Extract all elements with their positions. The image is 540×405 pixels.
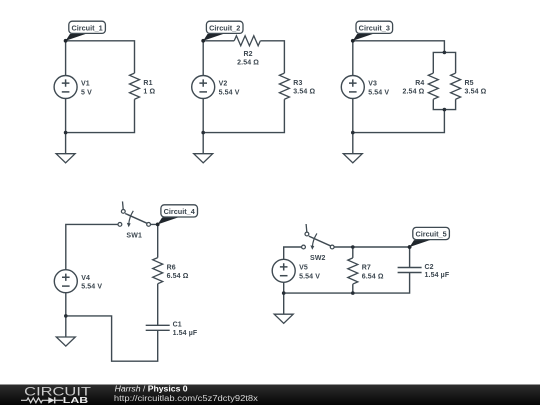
svg-text:1 Ω: 1 Ω: [143, 89, 155, 96]
capacitor C1: [146, 322, 198, 337]
svg-text:V2: V2: [219, 81, 228, 88]
wire c2 top left: [203, 41, 234, 76]
wire c4 top right: [151, 224, 158, 257]
svg-text:1.54 µF: 1.54 µF: [173, 330, 198, 337]
capacitor C2: [398, 264, 450, 279]
svg-text:6.54 Ω: 6.54 Ω: [167, 273, 189, 280]
wire c3 parallel bottom bar: [433, 99, 455, 109]
svg-text:R3: R3: [293, 80, 302, 87]
wire c2 top right: [260, 41, 284, 73]
ground: [56, 133, 75, 163]
resistor R2: [234, 36, 260, 67]
svg-text:V3: V3: [368, 81, 377, 88]
wire c5 top rail: [334, 247, 409, 268]
wire c3 top: [353, 41, 445, 76]
node label callout Circuit_3: [351, 21, 393, 42]
svg-text:R1: R1: [143, 80, 152, 87]
CircuitLab logo wire with resistor and diode: [21, 397, 63, 403]
wire c5 R7 upper stub: [352, 247, 354, 258]
svg-text:Circuit_1: Circuit_1: [71, 24, 102, 33]
svg-text:V4: V4: [81, 275, 90, 282]
switch SW1: [118, 201, 151, 239]
wire c2 bottom loop: [203, 99, 284, 133]
ground: [274, 293, 293, 323]
node c5 R7 top junction: [351, 245, 355, 249]
node c3 ground junction: [351, 131, 355, 135]
wire c4 left rail lower: [65, 293, 67, 316]
node c5 ground junction: [282, 291, 286, 295]
wire c5 bottom: [284, 273, 410, 294]
resistor R1: [130, 73, 156, 99]
svg-text:Harrsh / Physics 0: Harrsh / Physics 0: [115, 385, 189, 394]
CircuitLab logo diode: [48, 397, 54, 403]
svg-text:5.54 V: 5.54 V: [81, 284, 102, 291]
voltage source V2: [192, 76, 240, 99]
node c3 parallel top junction: [443, 51, 447, 55]
svg-text:Circuit_4: Circuit_4: [164, 207, 196, 216]
resistor R6: [153, 258, 189, 284]
ground: [343, 133, 362, 163]
node label callout Circuit_1: [64, 21, 106, 42]
svg-text:3.54 Ω: 3.54 Ω: [465, 89, 487, 96]
svg-text:3.54 Ω: 3.54 Ω: [293, 89, 315, 96]
wire c5 top left: [284, 247, 302, 259]
svg-text:5.54 V: 5.54 V: [299, 273, 320, 280]
voltage source V3: [341, 76, 389, 99]
svg-text:2.54 Ω: 2.54 Ω: [237, 59, 259, 66]
node c2 ground junction: [201, 131, 205, 135]
svg-text:Circuit_5: Circuit_5: [415, 230, 446, 239]
node c1 ground junction: [64, 131, 68, 135]
svg-text:5.54 V: 5.54 V: [368, 90, 389, 97]
svg-text:V5: V5: [299, 264, 308, 271]
node label callout Circuit_2: [201, 21, 243, 42]
node label callout Circuit_4: [156, 205, 198, 227]
svg-text:C1: C1: [173, 322, 182, 329]
ground: [194, 133, 213, 163]
node c5 R7 bottom junction: [351, 291, 355, 295]
svg-text:http://circuitlab.com/c5z7dcty: http://circuitlab.com/c5z7dcty92t8x: [114, 394, 258, 403]
svg-text:SW2: SW2: [310, 255, 326, 262]
wire c1 top loop: [66, 41, 135, 76]
node c4 ground junction: [64, 314, 68, 318]
svg-text:5 V: 5 V: [81, 90, 92, 97]
resistor R3: [279, 73, 315, 99]
footer bar: [0, 385, 540, 405]
svg-text:R4: R4: [415, 80, 424, 87]
svg-text:1.54 µF: 1.54 µF: [425, 272, 450, 279]
svg-text:Circuit_2: Circuit_2: [209, 24, 240, 33]
svg-text:SW1: SW1: [126, 232, 142, 239]
node c5 C2 top junction: [408, 245, 412, 249]
wire c4 R6 to C1: [157, 284, 159, 326]
voltage source V4: [54, 270, 102, 293]
wire c1 bottom loop: [66, 99, 135, 133]
wire c4 top left: [66, 224, 118, 269]
svg-text:5.54 V: 5.54 V: [219, 90, 240, 97]
voltage source V1: [54, 76, 92, 99]
wire c4 bottom return: [66, 316, 158, 361]
svg-text:6.54 Ω: 6.54 Ω: [362, 274, 384, 281]
svg-text:2.54 Ω: 2.54 Ω: [402, 89, 424, 96]
svg-text:R5: R5: [465, 80, 474, 87]
svg-text:R2: R2: [243, 51, 252, 58]
switch SW2: [302, 224, 335, 262]
svg-text:V1: V1: [81, 81, 90, 88]
svg-text:LAB: LAB: [63, 395, 88, 405]
svg-text:C2: C2: [425, 264, 434, 271]
wire c3 bottom: [353, 99, 445, 133]
svg-text:R7: R7: [362, 265, 371, 272]
ground: [56, 316, 75, 346]
node c3 parallel bottom junction: [443, 108, 447, 112]
voltage source V5: [272, 259, 320, 282]
svg-text:R6: R6: [167, 264, 176, 271]
resistor R4: [402, 73, 438, 99]
node label callout Circuit_5: [408, 227, 450, 249]
wire c3 parallel top bar: [433, 52, 455, 73]
svg-text:Circuit_3: Circuit_3: [359, 24, 390, 33]
wire c5 R7 lower stub: [352, 284, 354, 293]
resistor R5: [451, 73, 487, 99]
resistor R7: [348, 258, 384, 284]
